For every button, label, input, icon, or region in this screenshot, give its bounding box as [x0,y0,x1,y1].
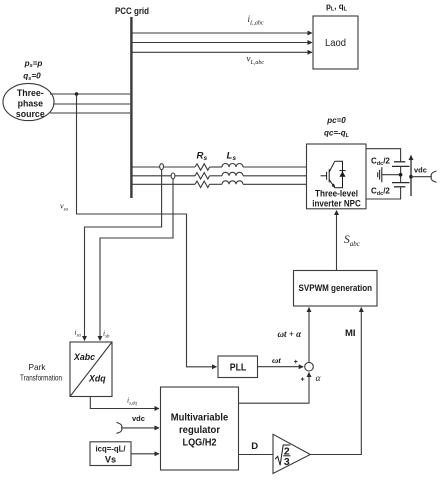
dc link middle vertical [400,166,402,182]
svg-text:3: 3 [284,456,290,468]
svg-text:isa: isa [75,328,82,339]
wire load phase b [132,42,312,44]
svg-text:regulator: regulator [179,425,220,436]
svg-text:vL,abc: vL,abc [247,54,265,67]
svg-text:vsa: vsa [60,202,69,213]
svg-text:phase: phase [18,99,44,109]
junction dot vdc [409,175,413,179]
vdc measure arrow [410,156,412,197]
svg-text:Xabc: Xabc [73,352,95,362]
svg-text:icq=-qL/: icq=-qL/ [95,445,126,454]
svg-text:ωt: ωt [272,355,281,365]
svg-text:α: α [316,374,322,384]
grid wire phase c with resistor and inductor [132,181,307,188]
svg-text:PCC grid: PCC grid [115,6,149,16]
icq reference box [90,442,131,466]
wire load phase a [132,32,312,34]
svg-text:Sabc: Sabc [344,234,361,248]
grid wire phase a with resistor and inductor [132,164,307,171]
vdc output fork terminal [431,171,436,182]
wire PLL to sum [258,366,304,368]
load box [313,16,358,69]
wire sum to SVPWM (omega t + alpha) [308,308,310,363]
svg-text:Cdc/2: Cdc/2 [371,157,390,167]
svg-text:PLL: PLL [230,361,247,373]
vdc input fork terminal [117,423,122,434]
icq wire [131,453,159,455]
svg-text:Ls: Ls [227,151,237,162]
wire source phase b [53,103,130,105]
svg-text:isb: isb [103,329,110,340]
svg-text:+: + [294,359,298,366]
sqrt(2/3) symbol [275,445,290,465]
wire load phase c [132,51,312,53]
svg-text:Cdc/2: Cdc/2 [371,187,390,197]
vdc output wire [411,176,431,178]
svg-text:qs=0: qs=0 [23,72,41,82]
IGBT symbol with diode [321,161,346,187]
svg-text:Laod: Laod [325,38,346,49]
svg-text:Park: Park [29,362,47,372]
svg-text:D: D [251,441,258,452]
SVPWM generation box [294,271,378,307]
capacitor Cdc/2 lower [392,183,410,187]
tap wire isa to Park [85,170,162,341]
junction dot on phase a [75,92,79,96]
MI wire gain to SVPWM [310,308,361,455]
wire source phase c [50,112,130,114]
svg-text:pL, qL: pL, qL [326,2,348,13]
PLL box [218,356,258,378]
svg-text:inverter NPC: inverter NPC [312,199,361,209]
svg-text:ps=p: ps=p [24,59,43,69]
svg-text:pc=0: pc=0 [326,116,346,125]
dc link bottom wire [366,187,401,199]
neutral point bars [378,167,382,182]
svg-text:Multivariable: Multivariable [171,413,229,424]
svg-text:ωt + α: ωt + α [278,329,303,339]
park transformation box [70,342,112,397]
alpha wire regulator to sum [239,373,310,404]
svg-text:vdc: vdc [414,166,427,175]
current tap node b [171,173,175,179]
Sabc wire SVPWM to inverter [336,211,338,271]
neutral point wire [382,174,401,176]
sqrt(2/3) gain triangle [273,434,310,473]
multivariable regulator box [161,387,239,470]
svg-text:Three-level: Three-level [315,189,358,199]
current tap node a [160,164,164,170]
svg-text:source: source [16,109,45,119]
PCC grid bus bar [130,17,132,198]
svg-text:iL,abc: iL,abc [248,14,264,27]
svg-text:LQG/H2: LQG/H2 [183,438,217,449]
svg-text:Xdq: Xdq [88,374,106,384]
svg-text:qc=-qL: qc=-qL [324,129,350,140]
svg-text:Vs: Vs [105,455,116,465]
svg-text:MI: MI [345,328,356,339]
svg-text:+: + [301,376,305,383]
svg-text:is,dq: is,dq [127,395,138,406]
junction dot dc midpoint [399,173,403,177]
park diagonal [70,342,112,397]
svg-text:Three-: Three- [17,88,44,98]
tap wire isb to Park [100,179,173,341]
wire source phase a [50,93,130,95]
three-phase source ellipse [3,83,54,120]
vdc input wire [122,427,159,429]
dc link top wire [366,149,401,162]
grid wire phase b with resistor and inductor [132,172,307,179]
svg-text:Rs: Rs [197,151,208,162]
D wire regulator to gain [239,454,274,456]
vs sense wire to PLL [77,94,217,367]
three-level inverter NPC box [307,144,367,209]
park output wire isdq [90,397,159,409]
sum junction circle [305,362,314,371]
svg-text:SVPWM generation: SVPWM generation [299,283,373,293]
svg-text:vdc: vdc [132,414,145,423]
capacitor Cdc/2 upper [392,162,410,167]
svg-text:Transformation: Transformation [20,373,62,383]
